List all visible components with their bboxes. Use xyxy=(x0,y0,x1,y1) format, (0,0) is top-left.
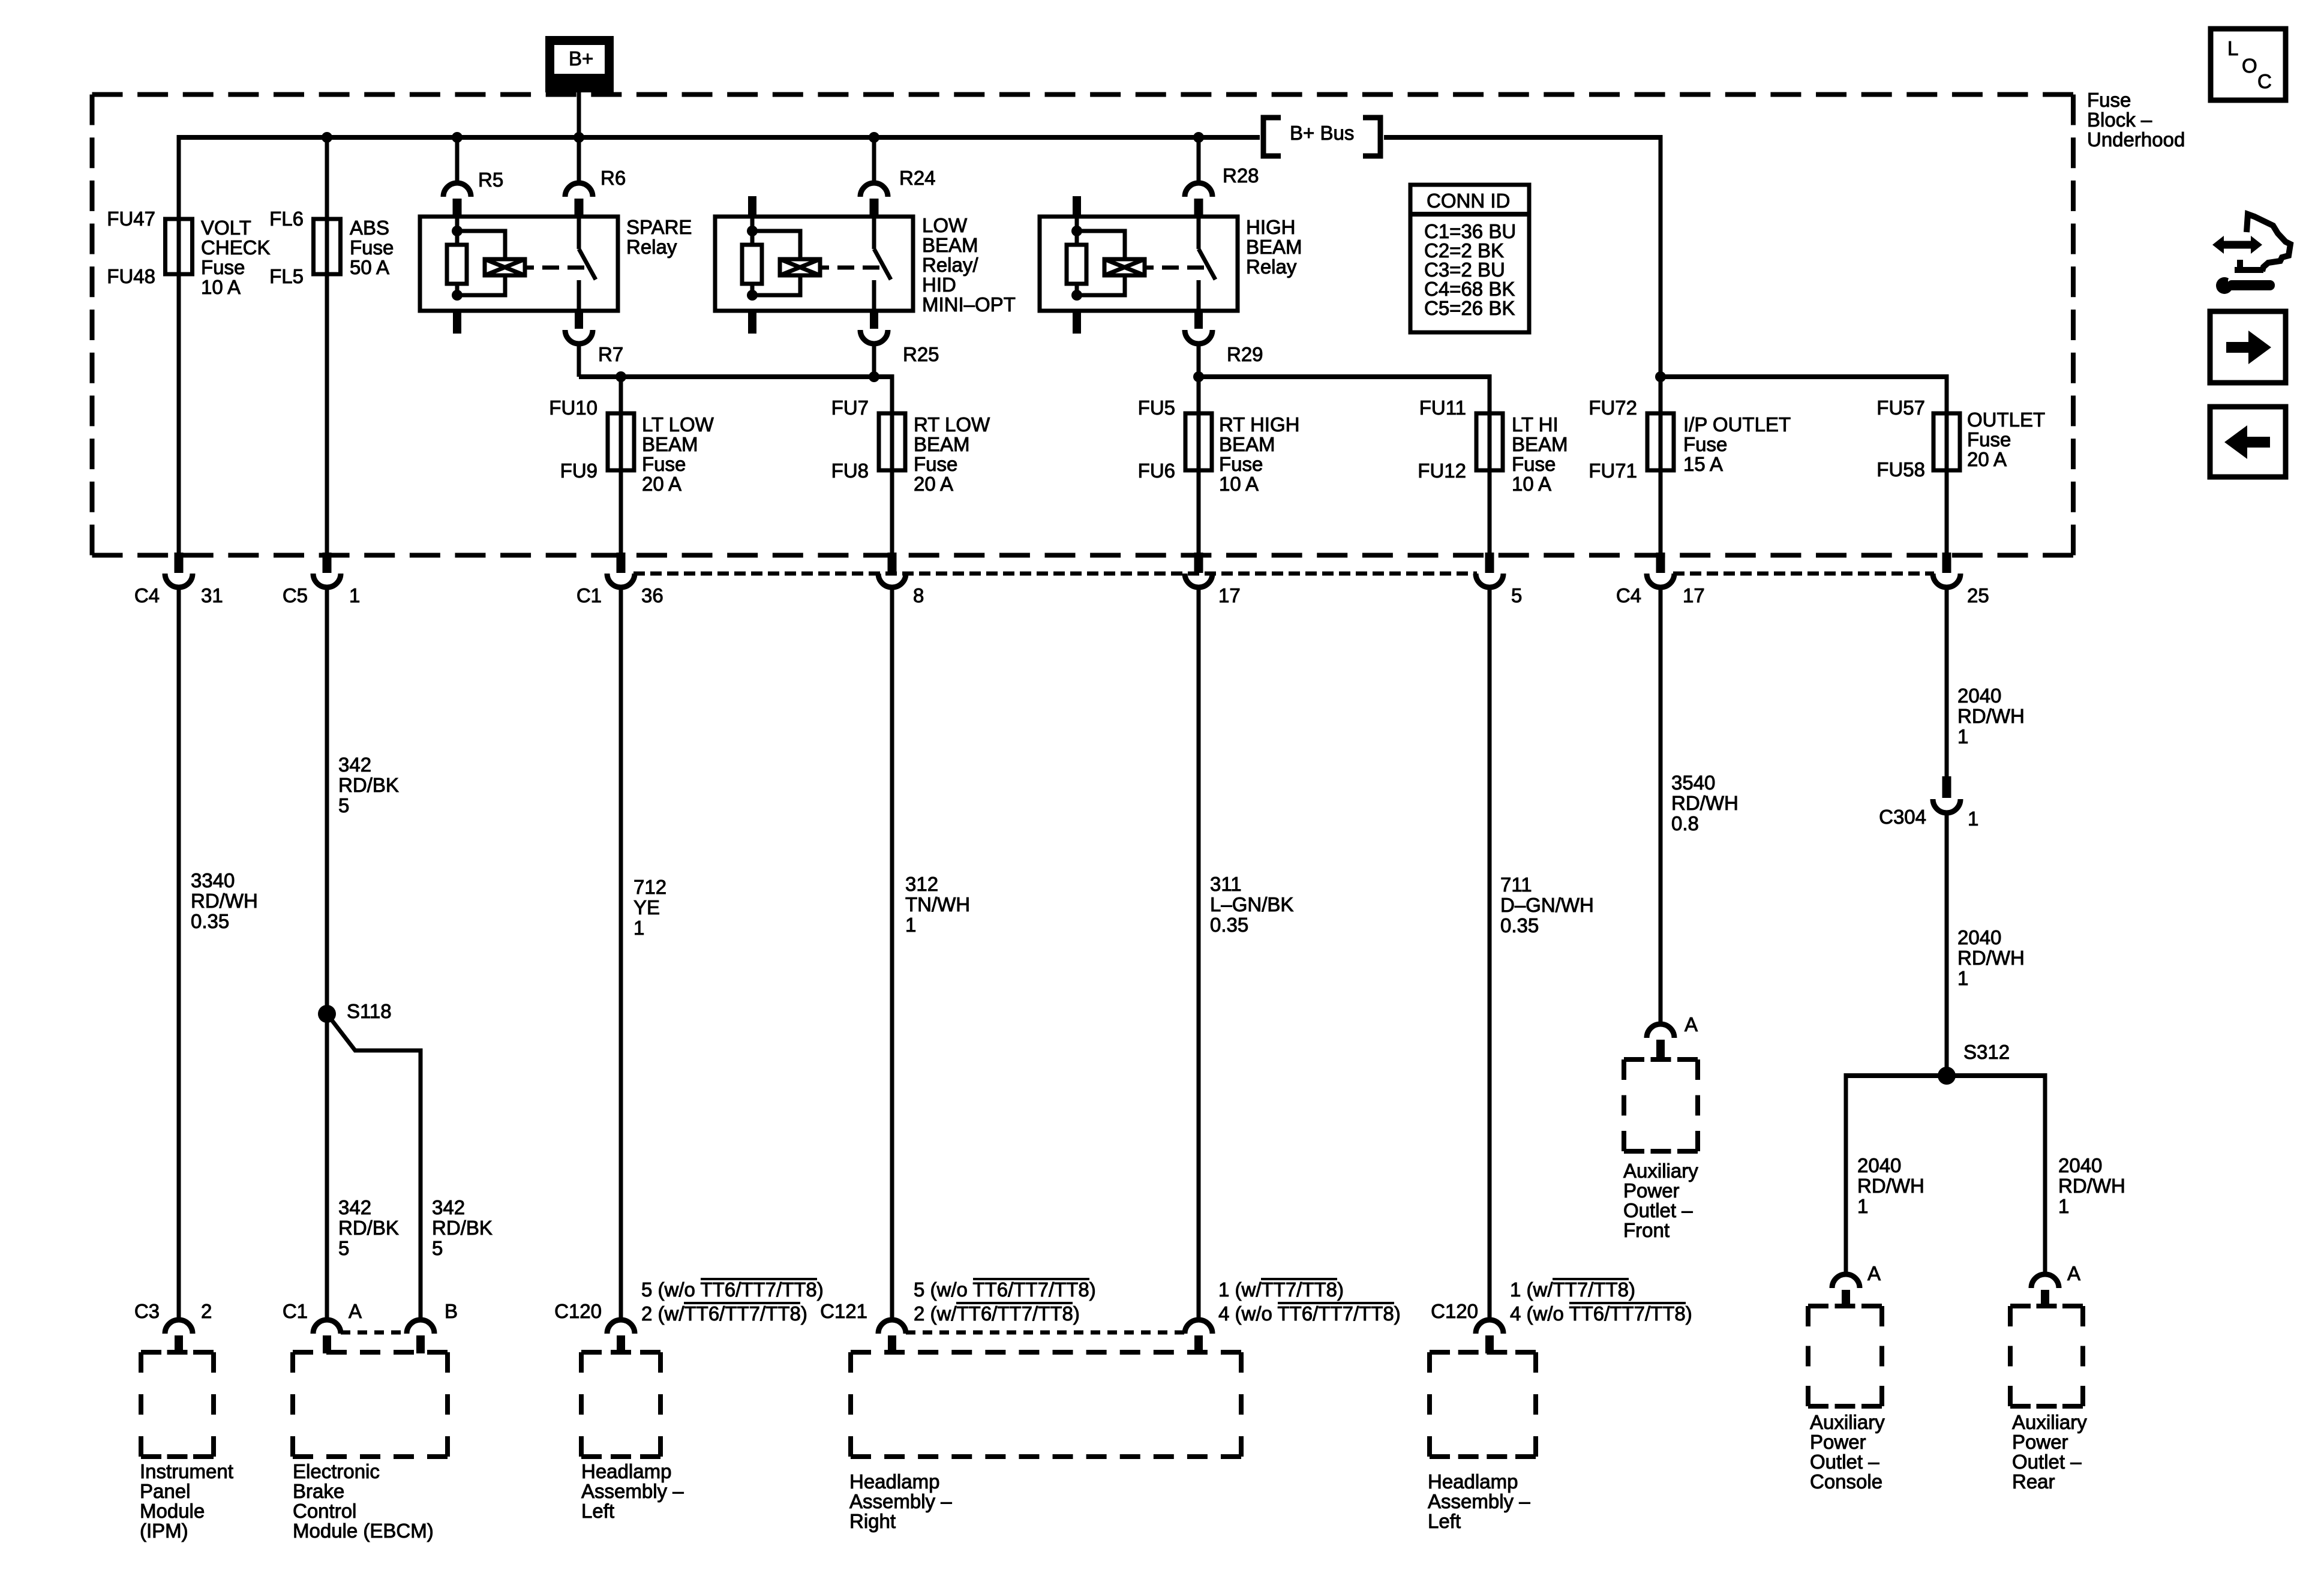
svg-text:C120: C120 xyxy=(554,1300,602,1322)
svg-text:0.35: 0.35 xyxy=(1500,914,1539,936)
connector pin A of aux power outlet rear xyxy=(2031,1262,2080,1308)
svg-text:342: 342 xyxy=(432,1196,465,1218)
svg-text:5: 5 xyxy=(1511,584,1522,607)
svg-text:L: L xyxy=(2227,37,2238,59)
connector C1 dashed gang line xyxy=(633,572,1477,576)
svg-text:RD/WH: RD/WH xyxy=(1857,1175,1924,1197)
pin labels 1/4 with TT options (headlamp right pin2) xyxy=(1218,1278,1401,1325)
svg-text:FU58: FU58 xyxy=(1876,458,1925,481)
svg-text:BEAM: BEAM xyxy=(1219,433,1275,455)
svg-text:Instrument: Instrument xyxy=(140,1460,233,1482)
svg-text:FU47: FU47 xyxy=(107,208,155,230)
splice S118 xyxy=(318,1000,392,1023)
battery feed flag B+ xyxy=(545,36,614,92)
fuse FU11/FU12 LT HI BEAM 10A xyxy=(1418,397,1568,495)
wire rail corner down to FU7 xyxy=(890,374,894,554)
svg-text:2 (w/TT6/TT7/TT8): 2 (w/TT6/TT7/TT8) xyxy=(914,1302,1080,1325)
svg-text:1: 1 xyxy=(1957,967,1968,989)
connector C4 pin 31 at fuse block xyxy=(134,553,223,607)
wire bus to R28 switch terminal xyxy=(1197,137,1201,184)
svg-text:Fuse: Fuse xyxy=(2087,89,2131,111)
svg-text:BEAM: BEAM xyxy=(642,433,698,455)
svg-text:3340: 3340 xyxy=(191,869,235,891)
svg-text:FU57: FU57 xyxy=(1876,397,1925,419)
svg-text:17: 17 xyxy=(1218,584,1241,607)
svg-text:RD/WH: RD/WH xyxy=(1957,947,2025,969)
svg-text:712: 712 xyxy=(633,876,666,898)
table CONN ID xyxy=(1410,185,1529,332)
svg-text:5 (w/o TT6/TT7/TT8): 5 (w/o TT6/TT7/TT8) xyxy=(641,1278,824,1301)
svg-text:MINI–OPT: MINI–OPT xyxy=(922,293,1016,316)
svg-text:R5: R5 xyxy=(478,169,503,191)
module Auxiliary Power Outlet Console dashed box xyxy=(1808,1306,1885,1493)
svg-text:CHECK: CHECK xyxy=(201,236,271,259)
svg-text:3540: 3540 xyxy=(1671,772,1715,794)
wire R7 down to low-beam feed rail xyxy=(577,343,581,377)
wire 342 RD/BK to EBCM xyxy=(325,586,329,1322)
connector C4 pin 17 at fuse block xyxy=(1616,553,1705,607)
wire B+ vertical from flag xyxy=(577,92,581,137)
connector pin 25 at fuse block xyxy=(1933,553,1989,607)
svg-text:10 A: 10 A xyxy=(201,276,241,298)
svg-text:50 A: 50 A xyxy=(350,256,389,278)
wire bus to R5 coil terminal xyxy=(455,137,460,184)
wire bus to R6 switch terminal xyxy=(577,137,581,184)
wire high beam feed rail xyxy=(1199,374,1490,379)
svg-text:Relay: Relay xyxy=(1246,256,1297,278)
svg-text:L–GN/BK: L–GN/BK xyxy=(1210,893,1293,915)
connector dashed link A-B xyxy=(341,1331,407,1335)
svg-text:C1: C1 xyxy=(283,1300,308,1322)
node bus-B+ junction xyxy=(574,132,584,143)
svg-text:4 (w/o TT6/TT7/TT8): 4 (w/o TT6/TT7/TT8) xyxy=(1218,1302,1401,1325)
icon back arrow box xyxy=(2210,407,2286,477)
svg-text:Headlamp: Headlamp xyxy=(581,1460,671,1482)
svg-text:Module (EBCM): Module (EBCM) xyxy=(293,1520,434,1542)
wire label 3340 RD/WH 0.35 xyxy=(191,869,258,932)
svg-text:Fuse: Fuse xyxy=(1512,453,1556,475)
svg-text:Console: Console xyxy=(1810,1470,1882,1493)
module Auxiliary Power Outlet Rear dashed box xyxy=(2010,1306,2087,1493)
svg-text:R7: R7 xyxy=(598,343,623,365)
svg-text:Fuse: Fuse xyxy=(201,256,245,278)
wire R29 down to high-beam feed rail xyxy=(1197,343,1201,377)
svg-text:312: 312 xyxy=(905,873,938,895)
wire rail to FU72 xyxy=(1659,377,1663,554)
module Headlamp Assembly Left (2) dashed box xyxy=(1428,1352,1536,1532)
svg-text:FU10: FU10 xyxy=(549,397,597,419)
svg-text:36: 36 xyxy=(641,584,663,607)
svg-text:17: 17 xyxy=(1683,584,1705,607)
svg-text:RD/WH: RD/WH xyxy=(1671,792,1739,814)
connector C1 pin A of EBCM xyxy=(283,1300,362,1353)
svg-text:Auxiliary: Auxiliary xyxy=(2012,1411,2087,1433)
svg-text:Power: Power xyxy=(1623,1179,1680,1202)
svg-text:0.35: 0.35 xyxy=(1210,914,1248,936)
svg-text:Auxiliary: Auxiliary xyxy=(1810,1411,1885,1433)
svg-text:A: A xyxy=(2067,1262,2080,1284)
svg-text:Left: Left xyxy=(581,1500,614,1522)
icon component view (arrow, panel outline, wrench) xyxy=(2212,214,2290,294)
wire 711 D-GN/WH to headlamp left xyxy=(1488,586,1492,1322)
connector C1 pin B of EBCM xyxy=(407,1300,458,1353)
svg-text:15 A: 15 A xyxy=(1683,453,1723,475)
wire low beam feed rail xyxy=(579,374,892,379)
wire 311 L-GN/BK to headlamp right pin2 xyxy=(1197,586,1201,1322)
svg-text:BEAM: BEAM xyxy=(1512,433,1568,455)
wire label 712 YE 1 xyxy=(633,876,666,939)
svg-text:OUTLET: OUTLET xyxy=(1967,409,2045,431)
connector C304 pin 1 xyxy=(1879,776,1978,830)
svg-text:1: 1 xyxy=(349,584,360,607)
svg-text:ABS: ABS xyxy=(350,217,389,239)
connector C121 of headlamp assembly right xyxy=(820,1300,906,1353)
svg-text:LT HI: LT HI xyxy=(1512,413,1559,436)
svg-text:1: 1 xyxy=(1957,725,1968,748)
svg-text:Power: Power xyxy=(2012,1431,2068,1453)
svg-text:2 (w/TT6/TT7/TT8): 2 (w/TT6/TT7/TT8) xyxy=(641,1302,807,1325)
connector C1 pin 17 at fuse block xyxy=(1185,553,1241,607)
connector R29 high beam relay output xyxy=(1185,311,1263,365)
svg-text:5 (w/o TT6/TT7/TT8): 5 (w/o TT6/TT7/TT8) xyxy=(914,1278,1096,1301)
svg-text:Electronic: Electronic xyxy=(293,1460,380,1482)
svg-text:Block –: Block – xyxy=(2087,109,2152,131)
svg-text:RD/BK: RD/BK xyxy=(432,1217,493,1239)
svg-text:Relay/: Relay/ xyxy=(922,254,978,276)
connector C4 dashed gang line xyxy=(1673,572,1934,576)
svg-text:2040: 2040 xyxy=(1957,685,2001,707)
svg-text:FU48: FU48 xyxy=(107,265,155,287)
svg-text:FU5: FU5 xyxy=(1138,397,1175,419)
svg-text:A: A xyxy=(1685,1013,1698,1035)
svg-text:1: 1 xyxy=(2058,1195,2069,1217)
connector C5 pin 1 at fuse block xyxy=(283,553,361,607)
svg-text:HID: HID xyxy=(922,274,956,296)
wire label 342 RD/BK 5 xyxy=(338,754,399,816)
svg-text:342: 342 xyxy=(338,754,371,776)
svg-text:FU7: FU7 xyxy=(831,397,869,419)
module Electronic Brake Control Module dashed box xyxy=(293,1352,448,1542)
svg-text:20 A: 20 A xyxy=(642,473,681,495)
svg-text:FU11: FU11 xyxy=(1419,397,1466,419)
svg-text:FU6: FU6 xyxy=(1138,460,1175,482)
wire 3340 RD/WH to IPM xyxy=(177,586,181,1322)
svg-text:Assembly –: Assembly – xyxy=(849,1490,952,1512)
svg-text:Left: Left xyxy=(1428,1510,1461,1532)
svg-text:1: 1 xyxy=(1968,807,1978,830)
wire S312 to aux outlet console xyxy=(1844,1073,1848,1277)
svg-text:Headlamp: Headlamp xyxy=(1428,1470,1518,1493)
svg-text:2040: 2040 xyxy=(1857,1154,1901,1176)
svg-text:Relay: Relay xyxy=(626,236,677,258)
svg-text:1: 1 xyxy=(905,914,916,936)
svg-text:VOLT: VOLT xyxy=(201,217,251,239)
svg-text:Fuse: Fuse xyxy=(642,453,686,475)
svg-text:FL5: FL5 xyxy=(269,265,304,287)
node rail-FU72 junction xyxy=(1655,371,1666,382)
svg-text:1: 1 xyxy=(1857,1195,1868,1217)
svg-text:0.8: 0.8 xyxy=(1671,812,1699,834)
fuse FU72/FU71 I/P OUTLET 15A xyxy=(1589,397,1791,482)
connector dashed link C121 pins xyxy=(906,1331,1185,1335)
svg-text:342: 342 xyxy=(338,1196,371,1218)
relay HIGH BEAM Relay xyxy=(1040,196,1302,334)
node rail-FU10 junction xyxy=(615,371,626,382)
module Headlamp Assembly Left dashed box xyxy=(581,1352,684,1522)
wire S312 branch rail xyxy=(1846,1073,2045,1078)
wire outlet feed rail xyxy=(1661,374,1947,379)
svg-text:Brake: Brake xyxy=(293,1480,344,1502)
svg-text:Rear: Rear xyxy=(2012,1470,2055,1493)
svg-text:711: 711 xyxy=(1500,873,1532,896)
svg-text:FL6: FL6 xyxy=(269,208,304,230)
connector C3 pin 2 of IPM xyxy=(134,1300,212,1353)
svg-text:BEAM: BEAM xyxy=(914,433,970,455)
svg-text:Module: Module xyxy=(140,1500,205,1522)
wire label 2040 RD/WH 1 (upper) xyxy=(1957,685,2025,748)
fuse FU7/FU8 RT LOW BEAM 20A xyxy=(831,397,990,495)
wire label 2040 RD/WH 1 (middle) xyxy=(1957,926,2025,989)
svg-text:Underhood: Underhood xyxy=(2087,128,2185,151)
pin labels 5/2 with TT options (headlamp right pin1) xyxy=(914,1278,1096,1325)
pin labels 1/4 with TT options (headlamp left) xyxy=(1510,1278,1692,1325)
svg-text:Assembly –: Assembly – xyxy=(1428,1490,1530,1512)
svg-text:Headlamp: Headlamp xyxy=(849,1470,939,1493)
svg-text:Fuse: Fuse xyxy=(350,236,394,259)
wire 712 YE to headlamp left xyxy=(619,586,623,1322)
connector R24 low beam relay switch xyxy=(860,167,936,218)
svg-text:B+ Bus: B+ Bus xyxy=(1290,122,1354,144)
pin labels 5/2 with TT options (headlamp left) xyxy=(641,1278,824,1325)
wire rail corner down to FU11 xyxy=(1488,374,1492,554)
wire B+ bus horizontal xyxy=(179,135,1260,140)
svg-text:SPARE: SPARE xyxy=(626,216,692,238)
icon forward arrow box xyxy=(2210,311,2286,383)
wire S118 branch to EBCM pin B xyxy=(327,1014,421,1322)
wire C304 to splice S312 xyxy=(1945,812,1949,1076)
svg-text:FU9: FU9 xyxy=(560,460,597,482)
splice S312 xyxy=(1938,1041,2010,1085)
label Fuse Block - Underhood xyxy=(2087,89,2185,151)
svg-text:TN/WH: TN/WH xyxy=(905,893,970,915)
wire R25 down to feed rail xyxy=(872,343,876,377)
svg-text:RD/WH: RD/WH xyxy=(2058,1175,2125,1197)
fuse FU47/FU48 VOLT CHECK 10A xyxy=(107,208,270,298)
wire label 2040 RD/WH 1 (rear) xyxy=(2058,1154,2125,1217)
svg-text:S312: S312 xyxy=(1963,1041,2010,1063)
connector R5 spare relay coil xyxy=(443,169,503,218)
svg-text:CONN ID: CONN ID xyxy=(1427,190,1510,212)
svg-text:Panel: Panel xyxy=(140,1480,190,1502)
svg-text:Assembly –: Assembly – xyxy=(581,1480,684,1502)
svg-text:I/P OUTLET: I/P OUTLET xyxy=(1683,413,1791,436)
svg-text:Outlet –: Outlet – xyxy=(1623,1199,1693,1221)
svg-text:B+: B+ xyxy=(569,47,593,70)
svg-text:FU12: FU12 xyxy=(1418,460,1466,482)
svg-text:2040: 2040 xyxy=(2058,1154,2102,1176)
wire B+ bus drop down to outlet feed rail xyxy=(1659,135,1663,377)
svg-text:C121: C121 xyxy=(820,1300,867,1322)
svg-text:C120: C120 xyxy=(1431,1300,1478,1322)
svg-text:BEAM: BEAM xyxy=(1246,236,1302,258)
module Auxiliary Power Outlet Front dashed box xyxy=(1623,1059,1698,1241)
svg-text:D–GN/WH: D–GN/WH xyxy=(1500,894,1594,916)
svg-text:Right: Right xyxy=(849,1510,896,1532)
wire S312 to aux outlet rear xyxy=(2043,1073,2047,1277)
svg-text:20 A: 20 A xyxy=(1967,448,2007,470)
wire label 342 RD/BK 5 (pin B) xyxy=(432,1196,493,1259)
wire rail corner down to FU57 xyxy=(1945,374,1949,554)
svg-text:RD/WH: RD/WH xyxy=(1957,705,2025,727)
connector C1 pin 36 at fuse block xyxy=(577,553,663,607)
svg-text:1: 1 xyxy=(633,917,644,939)
svg-text:C: C xyxy=(2257,70,2272,92)
module Headlamp Assembly Right dashed box xyxy=(849,1352,1241,1532)
node bus-R24 junction xyxy=(869,132,879,143)
fuse FL6/FL5 ABS 50A xyxy=(269,208,394,287)
fuse FU10/FU9 LT LOW BEAM 20A xyxy=(549,397,714,495)
node rail-FU5 junction xyxy=(1193,371,1204,382)
svg-text:RD/BK: RD/BK xyxy=(338,774,399,796)
svg-text:C4: C4 xyxy=(1616,584,1641,607)
svg-text:311: 311 xyxy=(1210,873,1242,895)
svg-text:HIGH: HIGH xyxy=(1246,216,1296,238)
net label B+ Bus bracket xyxy=(1263,118,1380,156)
svg-text:S118: S118 xyxy=(347,1000,392,1022)
svg-text:R24: R24 xyxy=(899,167,936,189)
svg-text:Fuse: Fuse xyxy=(914,453,957,475)
wire label 311 L-GN/BK 0.35 xyxy=(1210,873,1293,936)
relay SPARE Relay xyxy=(420,216,692,334)
wire label 342 RD/BK 5 (pin A) xyxy=(338,1196,399,1259)
wire 2040 RD/WH from fuse block to C304 xyxy=(1945,586,1949,776)
connector C120 of headlamp assembly left xyxy=(554,1300,635,1353)
wire rail to FU5 xyxy=(1197,377,1201,554)
wire rail to FU10 xyxy=(619,377,623,554)
svg-text:Fuse: Fuse xyxy=(1967,428,2011,451)
svg-text:C4: C4 xyxy=(134,584,160,607)
svg-text:RD/BK: RD/BK xyxy=(338,1217,399,1239)
svg-text:5: 5 xyxy=(432,1237,443,1259)
wire label 2040 RD/WH 1 (console) xyxy=(1857,1154,1924,1217)
svg-text:5: 5 xyxy=(338,1237,349,1259)
svg-text:LOW: LOW xyxy=(922,214,968,236)
node bus-R5 junction xyxy=(452,132,463,143)
module Instrument Panel Module (IPM) dashed box xyxy=(140,1352,233,1542)
connector C1 pin 8 at fuse block xyxy=(878,553,924,607)
svg-text:R28: R28 xyxy=(1223,164,1259,187)
svg-text:YE: YE xyxy=(633,896,660,918)
svg-text:8: 8 xyxy=(913,584,924,607)
wire bus corner down to VOLT CHECK fuse xyxy=(177,135,181,554)
connector pin A of aux power outlet front xyxy=(1647,1013,1698,1059)
wire 3540 RD/WH to aux power outlet front xyxy=(1659,586,1663,1026)
svg-text:25: 25 xyxy=(1967,584,1989,607)
connector pin A of aux power outlet console xyxy=(1832,1262,1881,1308)
svg-text:Outlet –: Outlet – xyxy=(2012,1451,2082,1473)
svg-text:A: A xyxy=(1867,1262,1881,1284)
wire bus to ABS fuse xyxy=(325,137,329,554)
wire bus to R24 switch terminal xyxy=(872,137,876,184)
connector R28 high beam relay switch xyxy=(1185,164,1259,218)
connector R7 spare relay output xyxy=(565,311,623,365)
svg-text:BEAM: BEAM xyxy=(922,234,978,256)
svg-text:C3: C3 xyxy=(134,1300,160,1322)
connector pin of headlamp right (second) xyxy=(1185,1320,1212,1353)
svg-text:(IPM): (IPM) xyxy=(140,1520,188,1542)
connector R6 spare relay switch xyxy=(565,167,626,218)
fuse FU57/FU58 OUTLET 20A xyxy=(1876,397,2045,481)
svg-text:Front: Front xyxy=(1623,1219,1670,1241)
svg-text:0.35: 0.35 xyxy=(191,910,229,932)
svg-text:1 (w/TT7/TT8): 1 (w/TT7/TT8) xyxy=(1218,1278,1344,1301)
svg-text:C5=26 BK: C5=26 BK xyxy=(1424,297,1515,319)
svg-text:B: B xyxy=(445,1300,458,1322)
svg-text:10 A: 10 A xyxy=(1219,473,1259,495)
svg-text:20 A: 20 A xyxy=(914,473,953,495)
svg-text:5: 5 xyxy=(338,794,349,816)
svg-text:A: A xyxy=(349,1300,362,1322)
connector C120 of headlamp assembly left (high beam) xyxy=(1431,1300,1503,1353)
svg-text:FU72: FU72 xyxy=(1589,397,1637,419)
svg-text:C304: C304 xyxy=(1879,806,1926,828)
relay LOW BEAM Relay / HID MINI-OPT xyxy=(715,196,1016,334)
wire label 711 D-GN/WH 0.35 xyxy=(1500,873,1594,936)
connector C1 pin 5 at fuse block xyxy=(1476,553,1522,607)
connector R25 low beam relay output xyxy=(860,311,939,365)
node bus-ABS junction xyxy=(322,132,332,143)
svg-text:O: O xyxy=(2242,55,2257,77)
svg-text:2: 2 xyxy=(201,1300,212,1322)
fuse FU5/FU6 RT HIGH BEAM 10A xyxy=(1138,397,1300,495)
svg-text:FU8: FU8 xyxy=(831,460,869,482)
svg-text:RT LOW: RT LOW xyxy=(914,413,990,436)
svg-text:1 (w/TT7/TT8): 1 (w/TT7/TT8) xyxy=(1510,1278,1635,1301)
svg-text:Outlet –: Outlet – xyxy=(1810,1451,1879,1473)
svg-text:R25: R25 xyxy=(903,343,939,365)
svg-text:R29: R29 xyxy=(1227,343,1263,365)
svg-text:Power: Power xyxy=(1810,1431,1866,1453)
wire label 312 TN/WH 1 xyxy=(905,873,970,936)
svg-text:4 (w/o TT6/TT7/TT8): 4 (w/o TT6/TT7/TT8) xyxy=(1510,1302,1692,1325)
svg-text:31: 31 xyxy=(201,584,223,607)
svg-text:Fuse: Fuse xyxy=(1683,433,1727,455)
svg-text:FU71: FU71 xyxy=(1589,460,1637,482)
svg-text:RD/WH: RD/WH xyxy=(191,890,258,912)
svg-text:R6: R6 xyxy=(600,167,626,189)
svg-text:Fuse: Fuse xyxy=(1219,453,1263,475)
wire label 3540 RD/WH 0.8 xyxy=(1671,772,1739,834)
svg-text:10 A: 10 A xyxy=(1512,473,1551,495)
wire bus segment right of B+ Bus label xyxy=(1384,135,1661,140)
svg-text:Auxiliary: Auxiliary xyxy=(1623,1160,1698,1182)
node rail-R25 junction xyxy=(869,371,879,382)
svg-text:C1: C1 xyxy=(577,584,602,607)
svg-text:C5: C5 xyxy=(283,584,308,607)
node bus-R28 junction xyxy=(1193,132,1204,143)
fuse block underhood dashed border xyxy=(92,95,2074,556)
svg-text:LT LOW: LT LOW xyxy=(642,413,714,436)
svg-text:Control: Control xyxy=(293,1500,356,1522)
wire 312 TN/WH to headlamp right xyxy=(890,586,894,1322)
icon LOC box xyxy=(2211,29,2286,100)
svg-text:2040: 2040 xyxy=(1957,926,2001,948)
svg-text:RT HIGH: RT HIGH xyxy=(1219,413,1299,436)
